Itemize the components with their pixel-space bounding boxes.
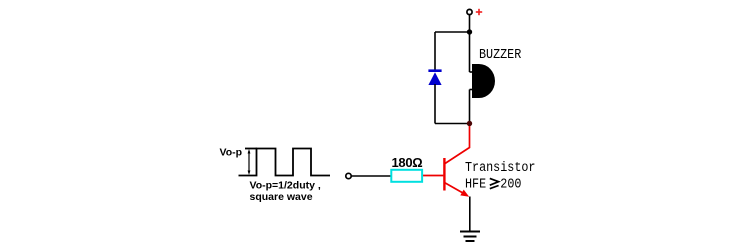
buzzer pin 2 stub — [470, 89, 474, 91]
wire terminal to junction — [469, 15, 471, 32]
wire collector (red) — [445, 126, 470, 164]
svg-text:Vo-p=1/2duty ,: Vo-p=1/2duty , — [250, 179, 321, 191]
wire buzzer branch lower vertical — [469, 90, 471, 124]
wire input to resistor — [351, 175, 391, 177]
svg-text:HFE: HFE — [465, 176, 486, 192]
waveform amplitude reference tick — [245, 148, 257, 150]
buzzer pin 1 stub — [470, 71, 474, 73]
junction dot top — [467, 29, 472, 34]
diode D1 cathode bar — [428, 69, 441, 72]
svg-text:square wave: square wave — [250, 191, 313, 203]
junction dot bottom (collector node) — [467, 121, 472, 126]
label >= (geq sign, drawn) — [490, 178, 499, 188]
svg-text:Vo-p: Vo-p — [220, 146, 243, 158]
wire top horizontal to diode branch — [435, 31, 470, 33]
node V+ terminal — [467, 9, 472, 14]
resistor R1 body — [391, 170, 422, 182]
svg-text:180Ω: 180Ω — [392, 155, 423, 170]
wire base (red) from resistor — [423, 175, 444, 177]
buzzer LS1 body — [472, 64, 495, 98]
transistor Q1 emitter with arrow — [444, 183, 462, 193]
wire diode branch lower vertical — [434, 84, 436, 124]
wire diode branch upper vertical — [434, 32, 436, 71]
wire buzzer branch upper vertical — [469, 32, 471, 72]
svg-text:Transistor: Transistor — [465, 159, 535, 175]
diode D1 anode triangle — [428, 72, 441, 85]
svg-text:200: 200 — [500, 176, 521, 192]
wire bottom horizontal of diode loop — [435, 123, 470, 125]
transistor Q1 base bar — [443, 158, 445, 191]
node input terminal — [346, 173, 351, 178]
wire emitter to ground — [469, 197, 471, 232]
svg-text:BUZZER: BUZZER — [479, 46, 522, 62]
ground — [460, 232, 480, 242]
waveform square wave trace — [239, 149, 331, 176]
waveform amplitude dimension arrow — [248, 149, 251, 175]
label + (supply polarity) — [476, 9, 482, 15]
